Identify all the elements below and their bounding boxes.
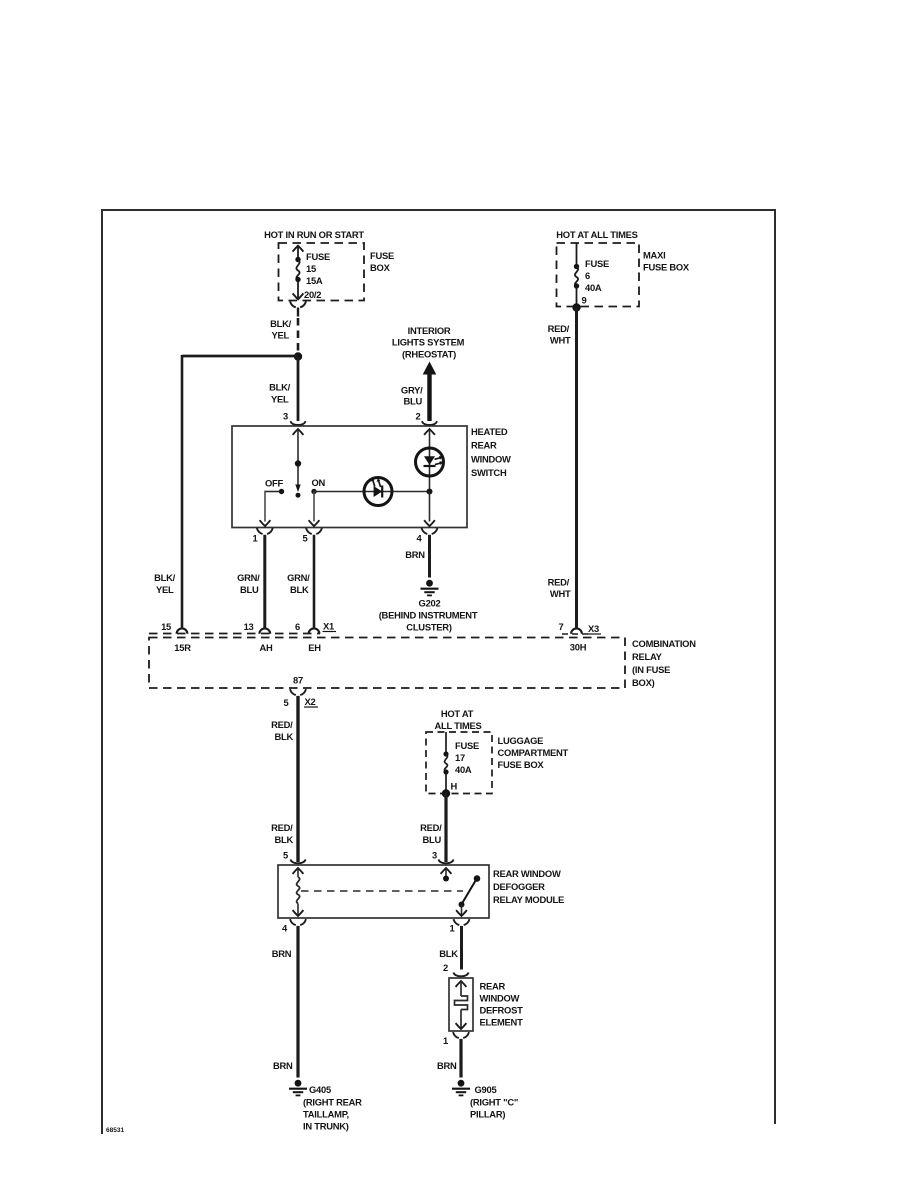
wire junction to pin 4: [429, 492, 431, 522]
svg-text:(BEHIND INSTRUMENT: (BEHIND INSTRUMENT: [379, 610, 478, 621]
svg-text:FUSE: FUSE: [370, 250, 394, 261]
maxi fuse box (dashed): [557, 243, 640, 307]
svg-text:COMPARTMENT: COMPARTMENT: [498, 747, 569, 758]
svg-text:BLK/: BLK/: [269, 382, 291, 393]
svg-text:WHT: WHT: [550, 335, 571, 346]
wire BRN pin4 to ground: [428, 535, 431, 578]
svg-text:4: 4: [417, 533, 423, 544]
wire fuse bottom lead: [576, 287, 578, 306]
svg-text:BRN: BRN: [272, 948, 292, 959]
connector X2 below relay: [290, 689, 306, 695]
fuse 17 40A symbol: [443, 751, 448, 756]
svg-text:GRY/: GRY/: [401, 385, 423, 396]
svg-text:YEL: YEL: [156, 584, 174, 595]
wire ON to indicator LED: [314, 491, 430, 493]
svg-text:WINDOW: WINDOW: [480, 993, 520, 1004]
svg-text:BLK: BLK: [290, 584, 309, 595]
connector pin 2: [422, 421, 437, 425]
svg-text:BLU: BLU: [403, 396, 422, 407]
svg-text:RELAY MODULE: RELAY MODULE: [493, 894, 564, 905]
svg-text:WHT: WHT: [550, 588, 571, 599]
element pin 2 connector: [453, 973, 468, 977]
svg-text:1: 1: [443, 1035, 448, 1046]
svg-text:WINDOW: WINDOW: [471, 453, 511, 464]
svg-text:X2: X2: [305, 696, 316, 707]
svg-text:LIGHTS SYSTEM: LIGHTS SYSTEM: [392, 337, 465, 348]
svg-text:1: 1: [450, 923, 455, 934]
ground G202: [421, 580, 439, 596]
svg-text:RED/: RED/: [271, 719, 293, 730]
svg-text:BLK: BLK: [274, 834, 293, 845]
svg-text:CLUSTER): CLUSTER): [406, 622, 452, 633]
wire ON to pin 5: [313, 491, 315, 522]
svg-text:BRN: BRN: [437, 1060, 457, 1071]
fuse 6 40A symbol: [574, 264, 579, 269]
svg-text:BLK/: BLK/: [154, 572, 176, 583]
switch movable contact (arrow to OFF/ON gap): [297, 466, 299, 485]
contact from pin 3: [441, 868, 452, 874]
wire fuse top lead: [576, 243, 578, 265]
fuse 15 15A symbol: [295, 257, 300, 262]
LED illumination lamp: [416, 448, 444, 476]
svg-text:RED/: RED/: [271, 822, 293, 833]
wire junction down to switch pin 3: [297, 356, 300, 421]
svg-text:INTERIOR: INTERIOR: [408, 325, 451, 336]
module pin 5 connector: [290, 860, 305, 864]
svg-text:87: 87: [293, 675, 303, 686]
svg-text:(IN FUSE: (IN FUSE: [632, 664, 670, 675]
svg-text:LUGGAGE: LUGGAGE: [498, 735, 544, 746]
svg-text:13: 13: [244, 621, 254, 632]
svg-text:COMBINATION: COMBINATION: [632, 638, 696, 649]
svg-text:(RIGHT "C": (RIGHT "C": [470, 1097, 518, 1108]
wire fuse top lead: [445, 732, 447, 752]
svg-text:RELAY: RELAY: [632, 651, 663, 662]
svg-text:BLK: BLK: [274, 731, 293, 742]
svg-text:BLK: BLK: [439, 948, 458, 959]
svg-text:5: 5: [283, 850, 288, 861]
svg-text:BOX: BOX: [370, 262, 391, 273]
svg-text:GRN/: GRN/: [237, 572, 260, 583]
pin 7 dome: [562, 633, 592, 635]
module pin 4 connector: [290, 919, 306, 925]
svg-text:BLK/: BLK/: [270, 318, 292, 329]
wire RED/BLK X2 down to module pin 5: [296, 696, 299, 862]
connector pin 5: [306, 528, 322, 534]
wire junction to left branch: [182, 355, 298, 358]
svg-text:G405: G405: [309, 1084, 331, 1095]
ground G405: [289, 1080, 307, 1096]
svg-text:7: 7: [559, 621, 564, 632]
svg-text:HEATED: HEATED: [471, 426, 508, 437]
svg-text:ON: ON: [312, 477, 326, 488]
svg-text:G905: G905: [475, 1084, 497, 1095]
svg-text:ALL TIMES: ALL TIMES: [434, 720, 481, 731]
wire GRN/BLK pin5 to relay 6: [313, 535, 316, 629]
rear window defogger relay module box: [278, 865, 489, 918]
wire fuse top lead: [297, 246, 299, 257]
relay switch blade: [474, 875, 481, 882]
wire BLK/YEL dashed: [297, 318, 300, 353]
svg-text:FUSE BOX: FUSE BOX: [498, 759, 545, 770]
svg-text:BOX): BOX): [632, 677, 655, 688]
svg-text:15: 15: [161, 621, 171, 632]
svg-text:DEFOGGER: DEFOGGER: [493, 881, 545, 892]
svg-text:30H: 30H: [570, 642, 587, 653]
svg-text:HOT AT: HOT AT: [441, 708, 474, 719]
wire fuse bottom lead: [297, 281, 299, 298]
svg-text:BLU: BLU: [422, 834, 441, 845]
LED indicator lamp (in wire to pin): [364, 477, 392, 505]
pin 6 dome: [309, 628, 320, 633]
svg-text:(RHEOSTAT): (RHEOSTAT): [402, 349, 456, 360]
coil-contact dashed link: [301, 890, 463, 892]
svg-text:6: 6: [585, 270, 590, 281]
connector rail X1: [149, 633, 320, 635]
svg-text:H: H: [451, 781, 458, 792]
svg-text:DEFROST: DEFROST: [480, 1005, 524, 1016]
wire fuse bottom lead: [445, 773, 447, 793]
rear window defrost element box: [449, 978, 473, 1031]
svg-text:6: 6: [295, 621, 300, 632]
element pin 1 connector: [453, 1032, 469, 1038]
ground G905: [452, 1080, 470, 1096]
svg-text:2: 2: [416, 411, 421, 422]
combination relay box (dashed): [149, 638, 625, 689]
svg-text:TAILLAMP,: TAILLAMP,: [303, 1109, 349, 1120]
wire OFF to pin 1: [265, 491, 279, 493]
svg-text:3: 3: [432, 850, 437, 861]
wire RED/WHT down to relay pin 7: [575, 308, 578, 629]
svg-text:15: 15: [306, 263, 316, 274]
svg-text:REAR: REAR: [471, 440, 497, 451]
svg-text:FUSE: FUSE: [455, 740, 479, 751]
svg-text:FUSE: FUSE: [306, 251, 330, 262]
wire pin 3 inside switch: [293, 429, 304, 435]
svg-text:AH: AH: [259, 642, 273, 653]
pin 13 dome: [259, 628, 270, 633]
connector below fuse box: [290, 301, 306, 307]
svg-text:FUSE: FUSE: [585, 258, 609, 269]
wire arrow into fuse (up): [293, 246, 304, 252]
svg-text:3: 3: [283, 411, 288, 422]
svg-text:(RIGHT REAR: (RIGHT REAR: [303, 1097, 362, 1108]
svg-text:ELEMENT: ELEMENT: [480, 1017, 524, 1028]
svg-text:SWITCH: SWITCH: [471, 467, 507, 478]
svg-text:15R: 15R: [174, 642, 191, 653]
svg-text:BRN: BRN: [405, 549, 425, 560]
svg-text:2: 2: [443, 962, 448, 973]
svg-text:PILLAR): PILLAR): [470, 1109, 505, 1120]
wire BLK module pin1 to defrost element: [460, 926, 463, 970]
module pin 1 connector: [454, 919, 470, 925]
svg-text:IN TRUNK): IN TRUNK): [303, 1121, 349, 1132]
node junction inside switch: [295, 460, 301, 466]
svg-text:BLU: BLU: [240, 584, 259, 595]
svg-text:X3: X3: [588, 623, 599, 634]
svg-text:5: 5: [284, 697, 289, 708]
wire GRY/BLU to interior lights (thick, arrow up): [423, 362, 437, 375]
svg-text:20/2: 20/2: [304, 289, 321, 300]
wire left branch down to relay pin 15: [181, 355, 184, 629]
svg-text:17: 17: [455, 752, 465, 763]
wire BRN module pin4 to ground: [296, 926, 299, 1078]
svg-text:REAR WINDOW: REAR WINDOW: [493, 868, 561, 879]
wire RED/BLU down to module pin 3: [444, 794, 447, 863]
svg-text:X1: X1: [323, 621, 334, 632]
svg-text:REAR: REAR: [480, 981, 506, 992]
connector pin 4: [422, 528, 438, 534]
svg-text:YEL: YEL: [271, 394, 289, 405]
border frame: [102, 210, 775, 1134]
node junction BLK/YEL: [294, 352, 302, 360]
fuse box (dashed): [279, 243, 365, 301]
wire pin 2 inside switch: [424, 429, 435, 435]
svg-text:HOT IN RUN OR START: HOT IN RUN OR START: [264, 229, 364, 240]
svg-text:4: 4: [282, 923, 288, 934]
node junction at box edge: [442, 789, 450, 797]
svg-text:RED/: RED/: [548, 577, 570, 588]
svg-text:RED/: RED/: [420, 822, 442, 833]
svg-text:40A: 40A: [455, 764, 472, 775]
heated rear window switch box: [232, 426, 467, 528]
svg-text:EH: EH: [308, 642, 321, 653]
node junction at box edge: [572, 303, 580, 311]
svg-text:68531: 68531: [106, 1127, 124, 1134]
svg-text:BRN: BRN: [273, 1060, 293, 1071]
wire GRN/BLU pin1 to relay 13: [263, 535, 266, 629]
node junction pin4: [427, 489, 433, 495]
arrow out of fuse (down): [293, 293, 304, 299]
svg-text:OFF: OFF: [265, 478, 284, 489]
svg-text:FUSE BOX: FUSE BOX: [643, 262, 690, 273]
svg-text:40A: 40A: [585, 282, 602, 293]
svg-text:RED/: RED/: [548, 323, 570, 334]
relay coil: [293, 868, 304, 874]
svg-text:5: 5: [303, 533, 308, 544]
module pin 3 connector: [438, 860, 453, 864]
svg-text:MAXI: MAXI: [643, 250, 665, 261]
svg-text:HOT AT ALL TIMES: HOT AT ALL TIMES: [556, 229, 637, 240]
wire stem: [297, 308, 299, 317]
svg-text:YEL: YEL: [272, 330, 290, 341]
svg-text:GRN/: GRN/: [287, 572, 310, 583]
connector pin 3: [290, 421, 305, 425]
luggage compartment fuse box (dashed): [426, 732, 492, 794]
svg-text:9: 9: [582, 295, 587, 306]
element heater symbol: [456, 981, 467, 987]
svg-text:15A: 15A: [306, 275, 323, 286]
connector pin 1: [257, 528, 273, 534]
svg-text:G202: G202: [419, 598, 441, 609]
pin 15 dome: [177, 628, 188, 633]
wire BRN element to ground: [459, 1039, 462, 1078]
svg-text:1: 1: [253, 533, 258, 544]
